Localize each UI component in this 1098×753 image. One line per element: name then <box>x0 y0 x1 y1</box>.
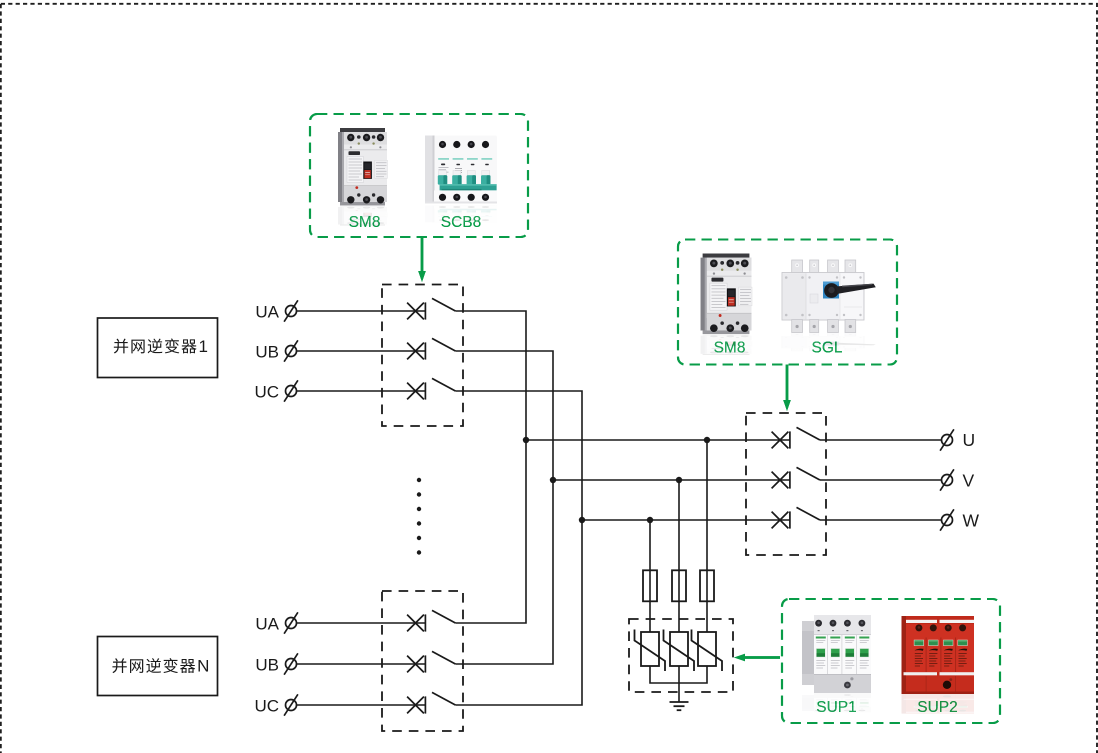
breaker QFN pole C <box>407 692 455 713</box>
wire SPD tap W <box>649 520 651 632</box>
terminal UA inverter1 <box>284 300 298 321</box>
green product box C (SUP1 + SUP2) <box>782 599 1000 723</box>
varistor RV3 <box>692 630 723 672</box>
svg-text:UC: UC <box>254 697 279 716</box>
product photo SM8 in box A <box>338 128 388 226</box>
breaker QF1 pole C <box>407 378 455 399</box>
inverter N label text 并网逆变器N <box>112 657 209 676</box>
wire earth lead <box>678 666 680 702</box>
green product box B (SM8 + SGL) <box>678 240 897 365</box>
main switch pole U <box>772 427 820 448</box>
junction dot SPD tap U <box>704 437 710 443</box>
wire bus W <box>582 519 790 521</box>
breaker QF1 pole A <box>407 298 455 319</box>
product photo SGL in box B <box>782 260 876 351</box>
green arrow from box A to breaker QF1 <box>418 237 426 282</box>
svg-text:UC: UC <box>254 383 279 402</box>
svg-text:U: U <box>963 430 976 450</box>
terminal U output <box>940 429 954 450</box>
terminal UC inverter1 <box>284 380 298 401</box>
SPD box dashed <box>629 619 733 692</box>
wire U switch to terminal <box>820 439 941 441</box>
wire phase B riser <box>455 351 553 664</box>
product photo SUP2 in box C <box>902 616 975 714</box>
green arrow from box B to main switch <box>783 365 791 412</box>
wire UCN terminal to breaker <box>297 704 425 706</box>
green product box A (SM8 + SCB8) <box>310 114 528 237</box>
svg-text:W: W <box>963 510 980 530</box>
ellipsis dots between inverters <box>417 478 421 555</box>
svg-text:N: N <box>197 657 209 676</box>
breaker QFN pole B <box>407 651 455 672</box>
breaker box QF1 dashed <box>382 285 463 427</box>
fuse FU1 <box>643 570 657 601</box>
wire UA1 terminal to breaker <box>297 310 425 312</box>
junction dot bus W left <box>579 517 585 523</box>
junction dot SPD tap V <box>676 477 682 483</box>
inverter N label box <box>98 637 218 696</box>
terminal V output <box>940 469 954 490</box>
svg-text:UA: UA <box>255 303 279 322</box>
wire phase A riser <box>455 311 526 623</box>
junction dot SPD tap W <box>647 517 653 523</box>
fuse FU3 <box>700 570 714 601</box>
ground symbol <box>670 702 689 710</box>
wire UC1 terminal to breaker <box>297 390 425 392</box>
green product box A (SM8 + SCB8) <box>310 114 528 237</box>
product photo SUP1 in box C <box>802 615 871 713</box>
main switch pole W <box>772 507 820 528</box>
inverter 1 label box <box>98 318 218 378</box>
wire W switch to terminal <box>820 519 941 521</box>
wire UAN terminal to breaker <box>297 622 425 624</box>
breaker QF1 pole B <box>407 338 455 359</box>
green product box C (SUP1 + SUP2) <box>782 599 1000 723</box>
svg-text:UA: UA <box>255 615 279 634</box>
wire bus U <box>526 439 790 441</box>
main switch pole V <box>772 467 820 488</box>
terminal UA inverterN <box>284 612 298 633</box>
wire UBN terminal to breaker <box>297 663 425 665</box>
svg-text:UB: UB <box>255 343 279 362</box>
product photo SM8 in box B <box>701 254 752 355</box>
breaker box QFN dashed <box>382 591 463 731</box>
terminal UC inverterN <box>284 694 298 715</box>
wire UB1 terminal to breaker <box>297 350 425 352</box>
green arrow from box A to breaker QF1 <box>418 237 426 282</box>
junction dot bus V left <box>550 477 556 483</box>
wire SPD tap V <box>678 480 680 632</box>
svg-text:V: V <box>963 470 975 490</box>
green arrow from box B to main switch <box>783 365 791 412</box>
main switch box dashed <box>746 413 826 555</box>
junction dot bus U left <box>523 437 529 443</box>
wire varistor common bus <box>650 666 707 683</box>
terminal W output <box>940 509 954 530</box>
varistor RV1 <box>635 630 666 672</box>
wire phase C riser <box>455 391 582 705</box>
terminal UB inverterN <box>284 653 298 674</box>
wire bus V <box>553 479 790 481</box>
green arrow from box C to SPD <box>734 654 780 662</box>
fuse FU2 <box>672 570 686 601</box>
wire V switch to terminal <box>820 479 941 481</box>
product photo SCB8 in box A <box>425 136 497 223</box>
terminal UB inverter1 <box>284 340 298 361</box>
svg-text:1: 1 <box>199 337 208 356</box>
inverter 1 label text 并网逆变器1 <box>114 337 208 356</box>
svg-text:UB: UB <box>255 656 279 675</box>
varistor RV2 <box>664 630 695 672</box>
green product box B (SM8 + SGL) <box>678 240 897 365</box>
green arrow from box C to SPD <box>734 654 780 662</box>
wire SPD tap U <box>706 440 708 632</box>
breaker QFN pole A <box>407 610 455 631</box>
